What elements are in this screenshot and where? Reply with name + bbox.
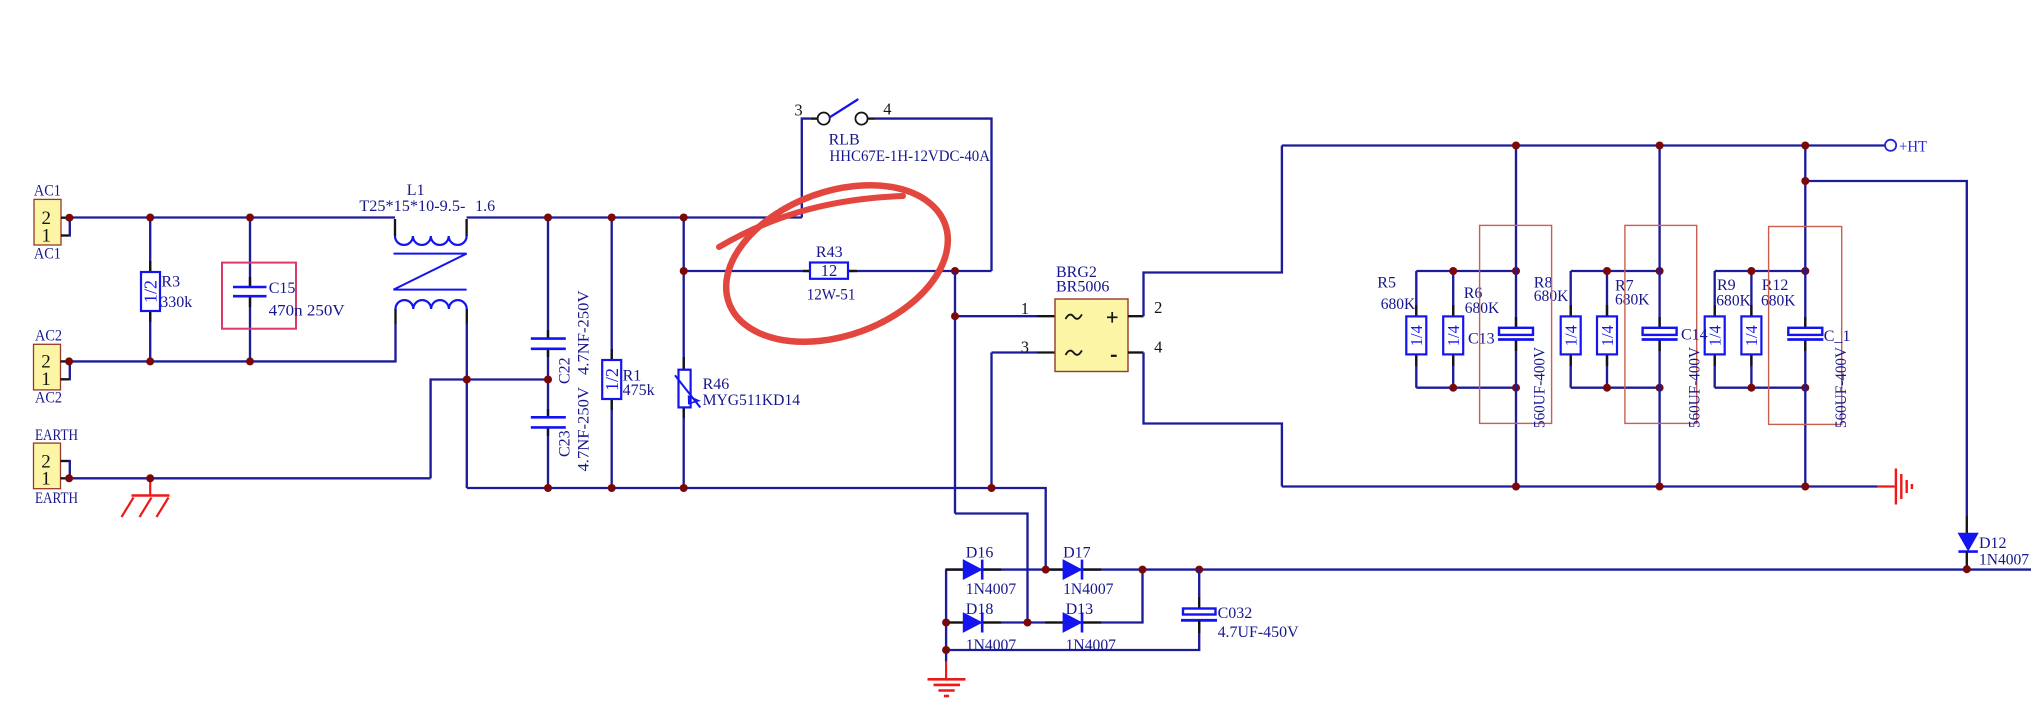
- wire bridge pin3: [992, 351, 1038, 353]
- connector J-AC1 pin 1 stub: [61, 234, 70, 236]
- resistor R8 wire: [1570, 271, 1572, 388]
- svg-text:1/4: 1/4: [1562, 325, 1581, 346]
- capacitor C22 plates: [531, 339, 566, 349]
- svg-text:1.6: 1.6: [475, 198, 495, 215]
- diode D12 lead lower: [1966, 552, 1968, 570]
- inductor L1 secondary winding: [396, 300, 467, 324]
- diode D18 label: [966, 601, 994, 618]
- junction R8R7 group dots: [1603, 267, 1664, 392]
- connector J-AC1 pin 1 number: [42, 226, 52, 247]
- relay RLB pin 3 number: [794, 100, 802, 119]
- resistor R43 body: [810, 263, 848, 279]
- capacitor C032 lead lower: [1198, 620, 1200, 633]
- varistor R46 wire: [683, 218, 685, 489]
- capacitor C_1 value: [1833, 347, 1850, 428]
- connector J-AC2: [34, 344, 61, 390]
- relay RLB contact circle right: [855, 113, 867, 125]
- wire +HT rail: [1282, 144, 1885, 146]
- ground chassis (EARTH input): [122, 480, 170, 517]
- wire R8R7 group bottom sub-rail: [1571, 387, 1660, 389]
- svg-text:1N4007: 1N4007: [1979, 551, 2029, 568]
- relay RLB label: [829, 131, 860, 148]
- svg-text:12: 12: [821, 261, 838, 280]
- svg-text:R5: R5: [1377, 275, 1396, 292]
- svg-text:1N4007: 1N4007: [1063, 581, 1113, 598]
- resistor R8 rating 1/4: [1562, 325, 1581, 346]
- resistor R7 body: [1597, 316, 1617, 354]
- svg-text:680K: 680K: [1716, 292, 1751, 309]
- resistor R5 label: [1377, 275, 1396, 292]
- junction R43 tap: [680, 267, 959, 275]
- diode D18 body: [963, 613, 982, 633]
- resistor R7 rating 1/4: [1598, 325, 1617, 346]
- connector J-AC2 label bottom: [35, 389, 62, 406]
- capacitor C23 leads: [547, 409, 549, 436]
- resistor R6 rating 1/4: [1444, 325, 1463, 346]
- wire EARTH pin2-pin1 elbow: [69, 460, 71, 480]
- wire EARTH line: [69, 477, 431, 479]
- wire R5R6 group bottom sub-rail: [1416, 387, 1516, 389]
- relay RLB contact 3 stub: [810, 117, 817, 119]
- capacitor C_1 leads: [1804, 317, 1806, 351]
- connector J-EARTH label bottom: [35, 490, 78, 507]
- svg-text:330k: 330k: [160, 294, 192, 311]
- svg-text:D18: D18: [966, 601, 994, 618]
- svg-text:MYG511KD14: MYG511KD14: [703, 392, 801, 409]
- diode D16 value: [966, 581, 1016, 598]
- diode D16 leads: [945, 568, 1001, 570]
- svg-text:1: 1: [42, 226, 52, 247]
- svg-text:R9: R9: [1717, 277, 1736, 294]
- resistor R9 rating 1/4: [1706, 325, 1725, 346]
- resistor R7 wire: [1606, 271, 1608, 388]
- connector J-AC2 pin 2 number: [41, 352, 51, 373]
- resistor R12 wire: [1750, 271, 1752, 388]
- connector J-AC2 label top: [35, 328, 62, 345]
- capacitor C15 leads: [249, 277, 251, 307]
- svg-text:1N4007: 1N4007: [966, 581, 1016, 598]
- capacitor C_1 plates: [1787, 328, 1823, 340]
- connector J-AC1 pin 2 stub: [61, 217, 67, 219]
- wire bridge pin1: [955, 271, 1037, 316]
- svg-text:EARTH: EARTH: [35, 427, 78, 444]
- varistor R46 body: [679, 370, 691, 408]
- diode D17 leads: [1045, 568, 1101, 570]
- svg-text:560UF-400V: 560UF-400V: [1833, 347, 1850, 428]
- resistor R7 leads: [1606, 305, 1608, 366]
- resistor R1 body: [602, 360, 621, 399]
- svg-text:D13: D13: [1066, 601, 1094, 618]
- wire L1 secondary left leg: [394, 323, 396, 363]
- svg-text:1: 1: [41, 469, 51, 490]
- svg-text:AC2: AC2: [35, 328, 62, 345]
- ground earth (doubler): [928, 662, 966, 696]
- junction bottom rail dots: [1512, 483, 1809, 491]
- svg-text:C13: C13: [1468, 330, 1495, 347]
- svg-text:R43: R43: [816, 244, 843, 261]
- capacitor C14 highlight box: [1625, 225, 1697, 423]
- resistor R12 label: [1762, 277, 1789, 294]
- relay RLB contact circle left: [818, 113, 830, 125]
- resistor R12 leads: [1750, 305, 1752, 366]
- capacitor C23 wire: [547, 427, 549, 488]
- wire filtered line top: [467, 216, 802, 218]
- connector J-EARTH pin 1 number: [41, 469, 51, 490]
- capacitor C15 plates: [233, 287, 267, 296]
- capacitor C23 plates: [531, 417, 566, 427]
- wire bridge pin3 riser to bus: [990, 353, 992, 489]
- diode D16 body: [963, 560, 982, 580]
- svg-text:4: 4: [883, 100, 891, 119]
- svg-text:D12: D12: [1979, 535, 2007, 552]
- resistor R12 body: [1741, 316, 1761, 354]
- diode D17 label: [1063, 545, 1091, 562]
- diode D18 leads: [945, 621, 1001, 623]
- resistor R7 label: [1615, 278, 1634, 295]
- resistor R1 label: [623, 367, 642, 384]
- resistor R6 wire: [1452, 271, 1454, 388]
- resistor R5 value: [1381, 296, 1416, 313]
- connector J-EARTH: [34, 443, 61, 489]
- junction AC1 dots: [65, 214, 687, 222]
- wire AC1 pin1-pin2 elbow: [69, 217, 71, 237]
- ground earth right bars: [1896, 469, 1912, 505]
- wire doubler D18 row: [946, 570, 1142, 623]
- svg-text:+HT: +HT: [1899, 139, 1927, 156]
- svg-text:D16: D16: [966, 545, 994, 562]
- svg-text:2: 2: [1154, 298, 1162, 317]
- svg-text:HHC67E-1H-12VDC-40A: HHC67E-1H-12VDC-40A: [830, 148, 991, 165]
- svg-text:D17: D17: [1063, 545, 1091, 562]
- resistor R6 value: [1465, 300, 1500, 317]
- capacitor C14 wire upper: [1658, 146, 1660, 328]
- varistor R46 diagonal: [675, 375, 700, 407]
- node +HT terminal: [1885, 140, 1896, 151]
- bridge BRG2 pin 4 number: [1154, 338, 1162, 357]
- wire bridge pin1 tap down: [954, 316, 956, 513]
- junction EARTH dots: [65, 474, 154, 482]
- resistor R5 rating 1/4: [1407, 325, 1426, 346]
- bridge BRG2 value: [1056, 279, 1109, 296]
- node +HT label: [1899, 139, 1927, 156]
- capacitor C14 wire lower: [1658, 340, 1660, 487]
- wire bridge pin4 to bottom rail: [1144, 353, 1282, 487]
- svg-text:C15: C15: [269, 280, 296, 297]
- diode D16 label: [966, 545, 994, 562]
- svg-text:1N4007: 1N4007: [1066, 637, 1116, 654]
- svg-text:C032: C032: [1218, 605, 1253, 622]
- resistor R5 leads: [1415, 305, 1417, 366]
- svg-text:4.7NF-250V: 4.7NF-250V: [576, 387, 593, 472]
- svg-text:1/4: 1/4: [1706, 325, 1725, 346]
- resistor R43 value: [807, 287, 856, 304]
- wire R8R7 group top sub-rail: [1571, 270, 1660, 272]
- wire R9R12 group bottom sub-rail: [1715, 387, 1806, 389]
- capacitor C_1 highlight box: [1769, 227, 1842, 425]
- resistor R1 value: [623, 382, 655, 399]
- inductor L1 primary winding: [395, 219, 467, 245]
- wire bridge pin2 to +HT rail: [1144, 146, 1282, 317]
- wire C22/C23 midpoint: [463, 376, 552, 384]
- svg-text:560UF-400V: 560UF-400V: [1532, 347, 1549, 428]
- connector J-AC1 label bottom: [34, 245, 61, 262]
- resistor R3 wire: [149, 218, 151, 362]
- connector J-EARTH pin 1 stub: [61, 477, 68, 479]
- resistor R43 leads: [803, 270, 857, 272]
- svg-text:RLB: RLB: [829, 131, 860, 148]
- capacitor C032 lead upper: [1198, 570, 1200, 609]
- capacitor C_1 label: [1824, 328, 1851, 345]
- svg-text:C_1: C_1: [1824, 328, 1851, 345]
- capacitor C15 value: [269, 303, 345, 320]
- capacitor C14 leads: [1658, 317, 1660, 351]
- resistor R8 label: [1534, 275, 1553, 292]
- resistor R43 wire: [684, 270, 992, 272]
- wire relay left riser: [802, 119, 811, 218]
- wire doubler top row: [946, 568, 2031, 570]
- junction R9R12 group dots: [1747, 267, 1809, 392]
- bridge BRG2 pin 1 number: [1021, 299, 1029, 318]
- resistor R6 leads: [1452, 305, 1454, 366]
- diode D12 value: [1979, 551, 2029, 568]
- relay RLB value: [830, 148, 991, 165]
- wire L1 secondary right leg: [466, 323, 468, 380]
- resistor R12 rating 1/4: [1742, 325, 1761, 346]
- wire AC1 line (L net): [69, 216, 395, 218]
- capacitor C_1 wire lower: [1804, 340, 1806, 487]
- bridge BRG2 minus glyph: [1111, 355, 1117, 357]
- resistor R5 body: [1406, 316, 1426, 354]
- resistor R3 label: [161, 273, 180, 290]
- bridge BRG2 pin 4 stub: [1128, 351, 1144, 353]
- resistor R3 body: [141, 272, 160, 311]
- svg-text:R3: R3: [161, 273, 180, 290]
- capacitor C15 wire: [249, 218, 251, 362]
- capacitor C13 highlight box: [1480, 225, 1552, 423]
- capacitor C14 plates: [1642, 328, 1678, 340]
- wire neutral bus vertical: [466, 380, 468, 489]
- inductor L1 label: [407, 182, 425, 199]
- svg-text:1/2: 1/2: [602, 368, 622, 391]
- wire relay right riser: [875, 119, 992, 271]
- bridge BRG2 pin 3 stub: [1037, 351, 1055, 353]
- svg-text:C23: C23: [557, 430, 574, 457]
- svg-text:C22: C22: [557, 357, 574, 384]
- connector J-AC1: [34, 199, 61, 245]
- svg-text:1N4007: 1N4007: [966, 637, 1016, 654]
- resistor R8 body: [1561, 316, 1581, 354]
- capacitor C13 value: [1532, 347, 1549, 428]
- capacitor C13 leads: [1515, 317, 1517, 351]
- resistor R3 value 330k: [160, 294, 192, 311]
- resistor R3 rating 1/2: [141, 280, 161, 303]
- junction +HT rail dots: [1512, 142, 1809, 186]
- capacitor C032 plates: [1181, 609, 1217, 621]
- capacitor C15 label: [269, 280, 296, 297]
- junction AC2 dots: [65, 357, 254, 365]
- bridge BRG2 pin 2 stub: [1128, 315, 1144, 317]
- bridge BRG2 plus glyph: [1107, 312, 1118, 323]
- capacitor C22 leads: [547, 330, 549, 357]
- diode D13 body: [1063, 613, 1082, 633]
- connector J-EARTH label top: [35, 427, 78, 444]
- capacitor C13 wire lower: [1515, 340, 1517, 487]
- wire R5R6 group top sub-rail: [1416, 270, 1516, 272]
- svg-text:680K: 680K: [1465, 300, 1500, 317]
- bridge BRG2 AC glyph top: [1066, 314, 1082, 319]
- resistor R9 value: [1716, 292, 1751, 309]
- svg-text:680K: 680K: [1615, 291, 1650, 308]
- svg-text:R12: R12: [1762, 277, 1789, 294]
- resistor R1 leads: [611, 349, 613, 410]
- wire R9R12 group top sub-rail: [1715, 270, 1806, 272]
- varistor R46 label: [703, 376, 730, 393]
- diode D12 label: [1979, 535, 2007, 552]
- capacitor C032 label: [1218, 605, 1253, 622]
- connector J-AC2 pin 2 stub: [61, 360, 68, 362]
- resistor R1 wire: [611, 218, 613, 489]
- connector J-EARTH pin 2 number: [41, 451, 51, 472]
- diode D17 body: [1063, 560, 1082, 580]
- capacitor C13 plates: [1498, 328, 1534, 340]
- capacitor C22 value: [576, 290, 593, 375]
- capacitor C15 highlight box: [222, 263, 296, 329]
- svg-text:1/2: 1/2: [141, 280, 161, 303]
- resistor R1 rating 1/2: [602, 368, 622, 391]
- svg-text:470n 250V: 470n 250V: [269, 303, 345, 320]
- wire earth riser: [431, 380, 548, 479]
- svg-text:1/4: 1/4: [1742, 325, 1761, 346]
- diode D13 value: [1066, 637, 1116, 654]
- bridge BRG2 pin 1 stub: [1037, 315, 1055, 317]
- svg-text:1/4: 1/4: [1407, 325, 1426, 346]
- wire AC2 pin1-pin2 elbow: [69, 360, 71, 380]
- resistor R7 value: [1615, 291, 1650, 308]
- capacitor C032 value: [1218, 624, 1299, 641]
- wire HT to D12: [1805, 181, 1967, 516]
- connector J-AC2 pin 1 stub: [61, 378, 70, 380]
- wire neutral bus: [467, 488, 1046, 570]
- capacitor C22 wire: [547, 218, 549, 418]
- svg-text:4: 4: [1154, 338, 1162, 357]
- varistor R46 value: [703, 392, 801, 409]
- varistor R46 leads: [683, 357, 685, 418]
- svg-text:475k: 475k: [623, 382, 655, 399]
- svg-text:R46: R46: [703, 376, 730, 393]
- resistor R9 wire: [1714, 271, 1716, 388]
- svg-text:12W-51: 12W-51: [807, 287, 856, 304]
- wire doubler bottom return: [946, 620, 1199, 650]
- bridge BRG2 body: [1055, 299, 1128, 372]
- relay RLB contact 4 stub: [868, 117, 875, 119]
- diode D12 lead upper: [1966, 516, 1968, 533]
- capacitor C14 label: [1681, 327, 1708, 344]
- svg-text:AC2: AC2: [35, 389, 62, 406]
- svg-text:680K: 680K: [1381, 296, 1416, 313]
- connector J-AC1 label top: [34, 183, 61, 200]
- svg-text:L1: L1: [407, 182, 425, 199]
- wire doubler left drop: [945, 570, 947, 662]
- resistor R43 value-in-box 12: [821, 261, 838, 280]
- diode D12 body: [1958, 533, 1978, 551]
- svg-text:3: 3: [1021, 337, 1029, 356]
- svg-text:EARTH: EARTH: [35, 490, 78, 507]
- capacitor C22 label: [557, 357, 574, 384]
- capacitor C14 value: [1687, 347, 1704, 428]
- resistor R3 leads: [149, 261, 151, 322]
- connector J-AC1 pin 2 number: [42, 208, 52, 229]
- diode D18 value: [966, 637, 1016, 654]
- resistor R9 label: [1717, 277, 1736, 294]
- capacitor C23 value: [576, 387, 593, 472]
- relay RLB pin 4 number: [883, 100, 891, 119]
- diode D13 label: [1066, 601, 1094, 618]
- resistor R8 leads: [1570, 305, 1572, 366]
- resistor R5 wire: [1415, 271, 1417, 388]
- bridge BRG2 label: [1056, 264, 1097, 281]
- annotation red scribble loop: [704, 157, 969, 371]
- junction doubler dots: [942, 565, 1971, 654]
- capacitor C23 label: [557, 430, 574, 457]
- capacitor C13 wire upper: [1515, 146, 1517, 328]
- bridge BRG2 AC glyph bottom: [1066, 350, 1082, 355]
- resistor R8 value: [1534, 288, 1569, 305]
- svg-text:T25*15*10-9.5-: T25*15*10-9.5-: [359, 198, 465, 215]
- resistor R9 body: [1705, 316, 1725, 354]
- ground earth right stub: [1878, 485, 1895, 487]
- svg-text:680K: 680K: [1761, 292, 1796, 309]
- resistor R43 label: [816, 244, 843, 261]
- svg-text:4.7NF-250V: 4.7NF-250V: [576, 290, 593, 375]
- connector J-AC2 pin 1 number: [41, 369, 51, 390]
- junction bridge pin1 dot: [951, 312, 959, 320]
- svg-text:1/4: 1/4: [1444, 325, 1463, 346]
- diode D13 leads: [1045, 621, 1101, 623]
- svg-text:4.7UF-450V: 4.7UF-450V: [1218, 624, 1299, 641]
- wire AC2 line (N net): [69, 360, 395, 362]
- bridge BRG2 pin 3 number: [1021, 337, 1029, 356]
- resistor R12 value: [1761, 292, 1796, 309]
- capacitor C_1 wire upper: [1804, 146, 1806, 328]
- inductor L1 value: [359, 198, 495, 215]
- svg-text:BR5006: BR5006: [1056, 279, 1109, 296]
- resistor R6 body: [1443, 316, 1463, 354]
- svg-text:AC1: AC1: [34, 183, 61, 200]
- diode D17 value: [1063, 581, 1113, 598]
- junction R5R6 group dots: [1449, 267, 1520, 392]
- inductor L1 core: [394, 254, 467, 290]
- svg-text:1/4: 1/4: [1598, 325, 1617, 346]
- svg-text:1: 1: [41, 369, 51, 390]
- svg-text:1: 1: [1021, 299, 1029, 318]
- annotation red scribble tail: [719, 196, 903, 247]
- resistor R6 label: [1464, 285, 1483, 302]
- relay RLB blade: [830, 100, 858, 118]
- wire pin1 net to D18 junction: [955, 514, 1028, 623]
- svg-text:AC1: AC1: [34, 245, 61, 262]
- svg-text:C14: C14: [1681, 327, 1708, 344]
- capacitor C13 label: [1468, 330, 1495, 347]
- resistor R9 leads: [1714, 305, 1716, 366]
- junction bus dots: [544, 484, 996, 492]
- svg-text:3: 3: [794, 100, 802, 119]
- wire bottom rail: [1282, 485, 1878, 487]
- connector J-EARTH pin 2 stub: [61, 460, 70, 462]
- svg-text:560UF-400V: 560UF-400V: [1687, 347, 1704, 428]
- bridge BRG2 pin 2 number: [1154, 298, 1162, 317]
